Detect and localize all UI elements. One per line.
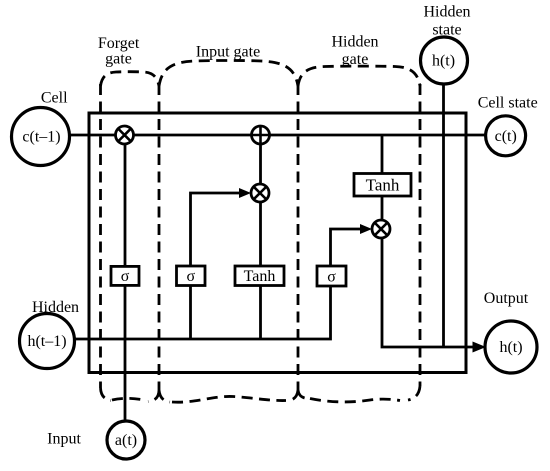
svg-text:Forget: Forget [98, 35, 140, 52]
svg-text:h(t–1): h(t–1) [27, 333, 66, 350]
svg-text:Output: Output [484, 290, 529, 307]
svg-text:Hidden: Hidden [423, 4, 470, 21]
svg-text:Cell: Cell [41, 89, 68, 106]
svg-text:c(t): c(t) [495, 128, 517, 145]
svg-text:Input: Input [47, 431, 81, 448]
svg-text:Input gate: Input gate [196, 44, 260, 61]
svg-text:Cell state: Cell state [478, 95, 538, 112]
svg-text:a(t): a(t) [115, 432, 137, 449]
svg-text:Hidden: Hidden [32, 299, 79, 316]
svg-text:Tanh: Tanh [244, 268, 276, 285]
svg-text:h(t): h(t) [499, 339, 522, 356]
svg-text:σ: σ [327, 269, 336, 286]
svg-text:σ: σ [121, 268, 130, 285]
svg-text:gate: gate [105, 51, 132, 68]
svg-text:state: state [432, 22, 461, 39]
svg-text:σ: σ [186, 268, 195, 285]
svg-text:gate: gate [342, 51, 369, 68]
svg-text:Hidden: Hidden [331, 34, 378, 51]
svg-text:Tanh: Tanh [366, 176, 400, 195]
svg-text:c(t–1): c(t–1) [22, 129, 60, 146]
svg-text:h(t): h(t) [432, 53, 455, 70]
